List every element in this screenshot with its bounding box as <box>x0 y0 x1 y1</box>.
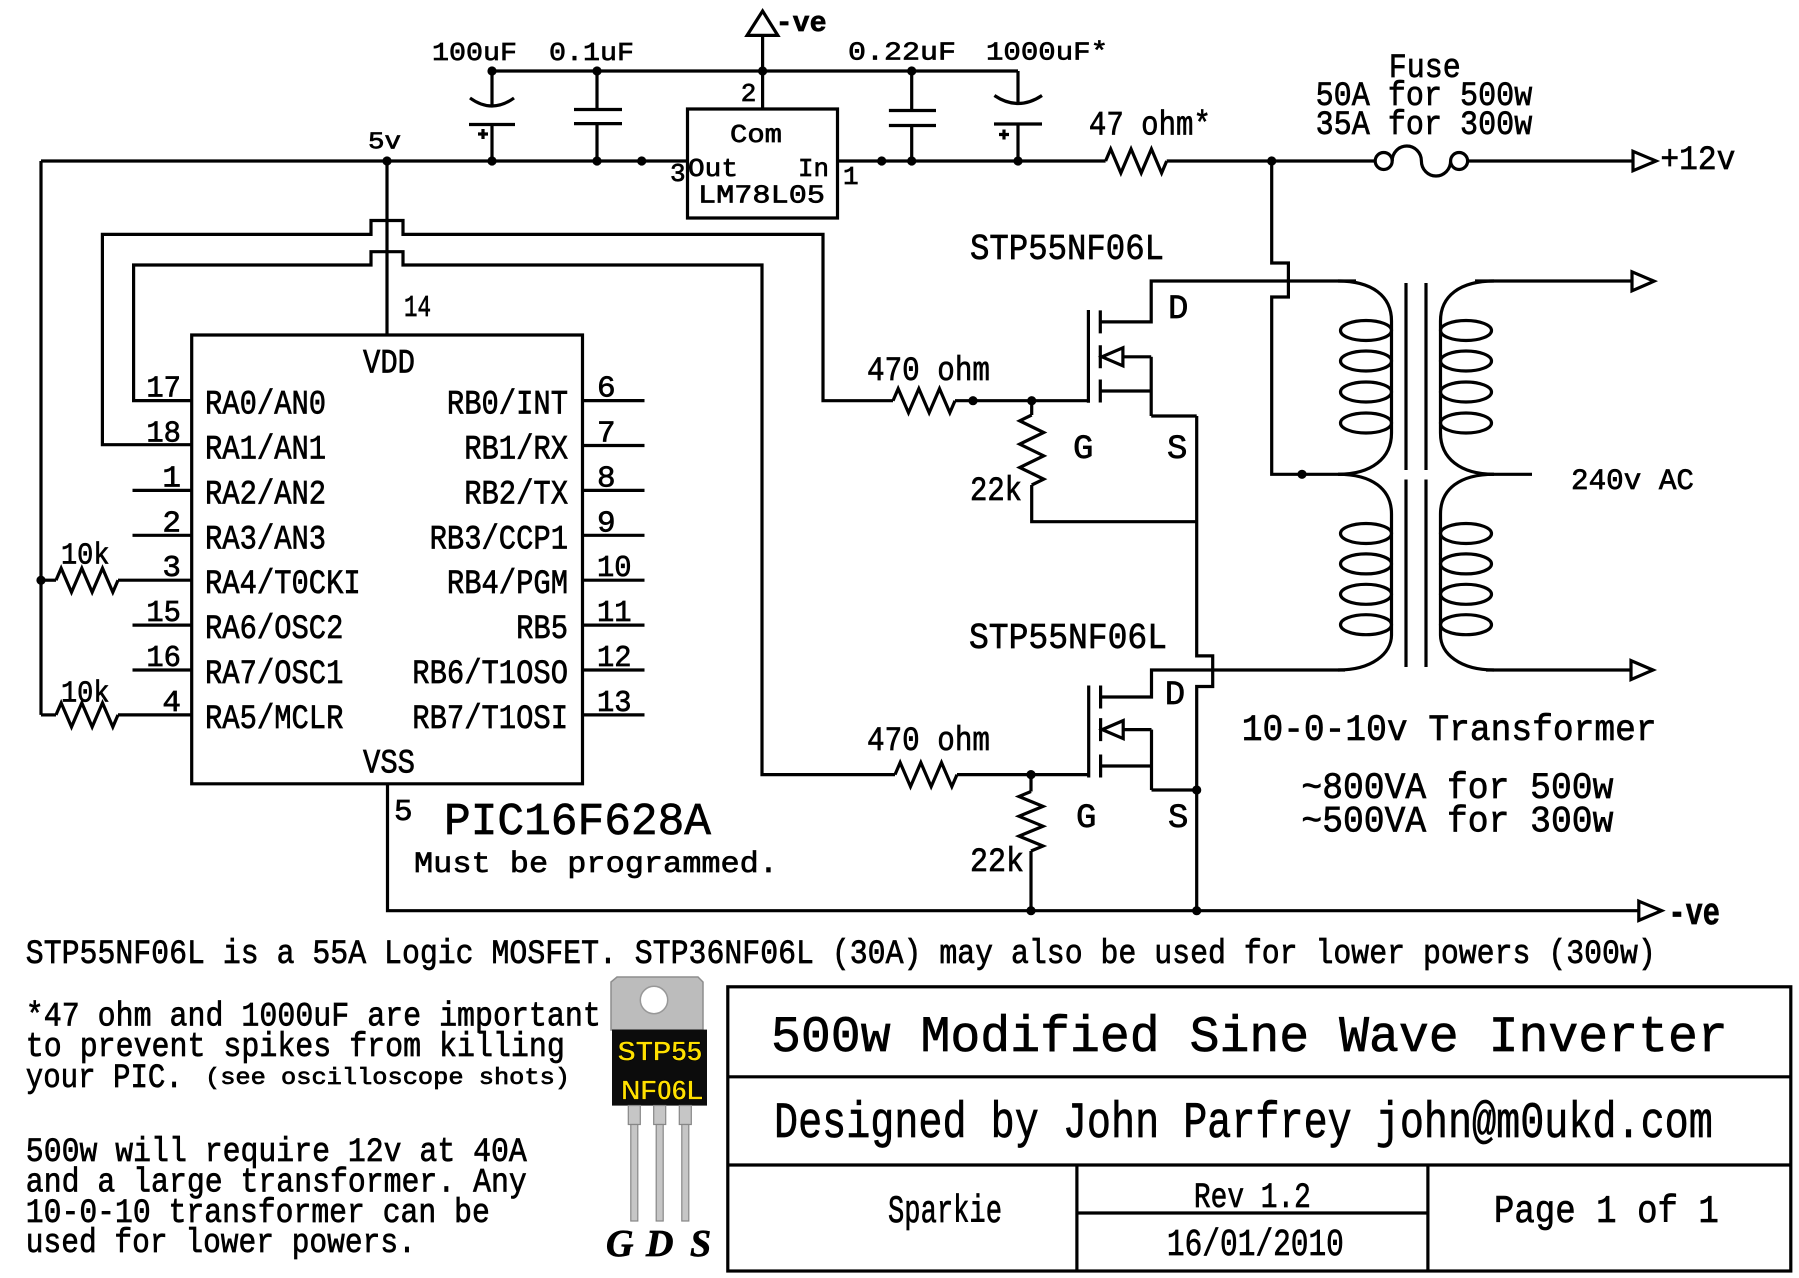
svg-text:Rev 1.2: Rev 1.2 <box>1194 1178 1311 1218</box>
svg-text:NF06L: NF06L <box>621 1074 703 1105</box>
svg-text:13: 13 <box>597 686 632 721</box>
svg-text:RB5: RB5 <box>516 611 568 649</box>
svg-text:RB4/PGM: RB4/PGM <box>447 566 568 604</box>
svg-text:RA4/T0CKI: RA4/T0CKI <box>205 566 361 604</box>
svg-text:15: 15 <box>146 596 181 631</box>
svg-text:0.22uF: 0.22uF <box>848 38 956 68</box>
svg-text:8: 8 <box>597 461 616 496</box>
svg-text:470 ohm: 470 ohm <box>867 723 990 761</box>
svg-text:5: 5 <box>394 795 413 830</box>
svg-text:RA2/AN2: RA2/AN2 <box>205 476 326 514</box>
svg-text:your PIC.: your PIC. <box>26 1060 183 1098</box>
svg-text:470 ohm: 470 ohm <box>867 353 990 391</box>
svg-text:10k: 10k <box>61 539 110 574</box>
svg-text:Sparkie: Sparkie <box>888 1190 1002 1234</box>
svg-text:VSS: VSS <box>363 746 415 784</box>
svg-text:In: In <box>798 154 829 184</box>
svg-text:used for lower powers.: used for lower powers. <box>26 1225 416 1263</box>
svg-text:G: G <box>1076 800 1096 838</box>
svg-text:Designed by John Parfrey john@: Designed by John Parfrey john@m0ukd.com <box>774 1096 1713 1153</box>
svg-text:STP55NF06L: STP55NF06L <box>969 618 1167 659</box>
svg-text:STP55: STP55 <box>617 1036 702 1067</box>
svg-text:1000uF*: 1000uF* <box>986 38 1108 68</box>
svg-text:3: 3 <box>162 551 181 586</box>
svg-text:47 ohm*: 47 ohm* <box>1089 108 1211 146</box>
svg-text:0.1uF: 0.1uF <box>549 38 634 68</box>
svg-text:-ve: -ve <box>776 7 827 40</box>
svg-text:100uF: 100uF <box>432 38 517 68</box>
svg-text:10-0-10v Transformer: 10-0-10v Transformer <box>1242 710 1657 752</box>
svg-text:Must be programmed.: Must be programmed. <box>414 848 778 882</box>
svg-text:240v AC: 240v AC <box>1571 465 1694 499</box>
svg-text:RB7/T1OSI: RB7/T1OSI <box>412 701 568 739</box>
svg-text:RB1/RX: RB1/RX <box>464 432 568 470</box>
svg-text:(see oscilloscope shots): (see oscilloscope shots) <box>205 1065 570 1091</box>
svg-text:500w Modified Sine Wave Invert: 500w Modified Sine Wave Inverter <box>771 1010 1728 1067</box>
svg-text:S: S <box>1167 431 1187 469</box>
svg-text:RA7/OSC1: RA7/OSC1 <box>205 656 343 694</box>
svg-text:16/01/2010: 16/01/2010 <box>1167 1224 1344 1267</box>
svg-text:35A for 300w: 35A for 300w <box>1316 107 1533 145</box>
svg-text:S: S <box>690 1223 711 1265</box>
svg-text:VDD: VDD <box>363 346 415 384</box>
svg-text:2: 2 <box>741 79 757 109</box>
svg-text:7: 7 <box>597 417 616 452</box>
svg-text:G: G <box>606 1223 634 1265</box>
svg-text:16: 16 <box>146 641 181 676</box>
svg-text:10k: 10k <box>61 677 110 712</box>
svg-text:18: 18 <box>146 417 181 452</box>
svg-text:3: 3 <box>670 159 686 189</box>
svg-text:Page 1 of 1: Page 1 of 1 <box>1494 1190 1719 1234</box>
svg-text:RB0/INT: RB0/INT <box>447 387 568 425</box>
svg-text:D: D <box>1165 677 1185 715</box>
svg-text:11: 11 <box>597 596 632 631</box>
svg-text:1: 1 <box>843 162 859 192</box>
svg-text:Com: Com <box>730 120 782 150</box>
svg-text:-ve: -ve <box>1668 893 1720 936</box>
svg-text:Out: Out <box>688 154 738 184</box>
svg-text:RA1/AN1: RA1/AN1 <box>205 432 326 470</box>
svg-text:10: 10 <box>597 551 632 586</box>
svg-text:2: 2 <box>162 506 181 541</box>
svg-text:22k: 22k <box>970 473 1022 511</box>
svg-text:~500VA for 300w: ~500VA for 300w <box>1301 802 1613 844</box>
svg-text:S: S <box>1168 800 1188 838</box>
svg-text:9: 9 <box>597 506 616 541</box>
svg-text:RB2/TX: RB2/TX <box>464 476 568 514</box>
svg-text:12: 12 <box>597 641 632 676</box>
svg-text:STP55NF06L: STP55NF06L <box>970 229 1164 270</box>
svg-text:1: 1 <box>162 461 181 496</box>
svg-text:RA0/AN0: RA0/AN0 <box>205 387 326 425</box>
svg-text:17: 17 <box>146 372 181 407</box>
svg-text:6: 6 <box>597 372 616 407</box>
svg-text:RA3/AN3: RA3/AN3 <box>205 521 326 559</box>
svg-text:D: D <box>1168 291 1188 329</box>
svg-text:PIC16F628A: PIC16F628A <box>444 797 711 848</box>
svg-text:RA5/MCLR: RA5/MCLR <box>205 701 343 739</box>
svg-text:RB6/T1OSO: RB6/T1OSO <box>412 656 568 694</box>
svg-text:RA6/OSC2: RA6/OSC2 <box>205 611 343 649</box>
svg-text:STP55NF06L is a 55A Logic MOSF: STP55NF06L is a 55A Logic MOSFET. STP36N… <box>26 936 1656 974</box>
svg-text:RB3/CCP1: RB3/CCP1 <box>430 521 568 559</box>
svg-text:5v: 5v <box>368 130 401 157</box>
svg-text:+12v: +12v <box>1660 142 1735 180</box>
svg-text:22k: 22k <box>970 844 1024 882</box>
svg-text:14: 14 <box>404 291 431 326</box>
svg-text:4: 4 <box>162 686 181 721</box>
svg-text:LM78L05: LM78L05 <box>698 181 825 211</box>
svg-text:G: G <box>1073 431 1093 469</box>
svg-text:D: D <box>645 1223 673 1265</box>
